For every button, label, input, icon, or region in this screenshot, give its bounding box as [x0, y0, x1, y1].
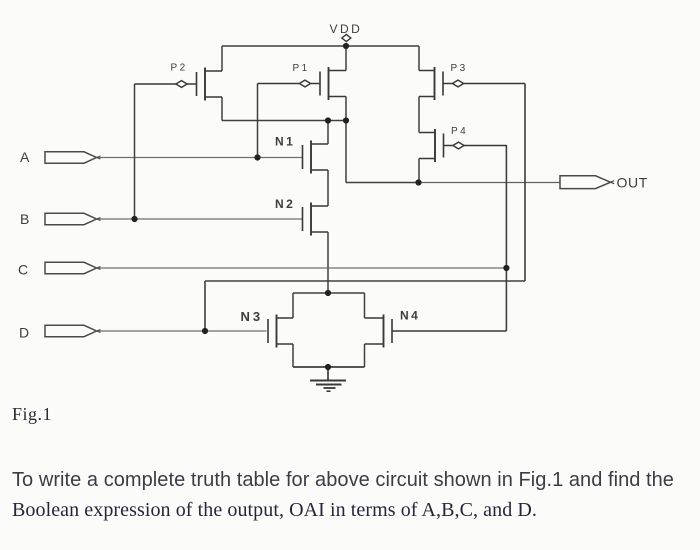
- svg-text:P3: P3: [451, 63, 468, 74]
- svg-text:C: C: [18, 262, 28, 278]
- svg-text:P2: P2: [171, 63, 188, 74]
- svg-text:VDD: VDD: [330, 22, 363, 36]
- svg-text:D: D: [19, 325, 29, 341]
- svg-text:N4: N4: [400, 309, 420, 323]
- svg-text:N2: N2: [275, 197, 295, 211]
- svg-text:B: B: [20, 211, 29, 227]
- svg-text:N3: N3: [241, 309, 264, 324]
- svg-text:P4: P4: [451, 126, 468, 137]
- svg-text:N1: N1: [275, 135, 295, 149]
- svg-text:P1: P1: [293, 63, 310, 74]
- svg-text:OUT: OUT: [617, 175, 648, 191]
- svg-text:A: A: [20, 149, 30, 165]
